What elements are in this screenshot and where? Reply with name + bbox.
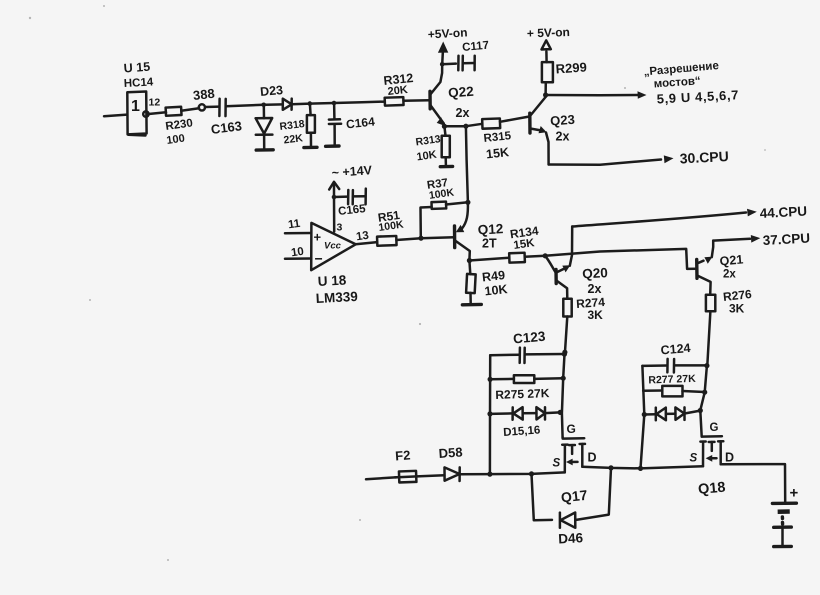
wire enable arrow	[546, 91, 647, 99]
label Q23	[550, 112, 576, 129]
capacitor C123	[490, 348, 564, 363]
capacitor C164	[329, 103, 341, 145]
label C123	[512, 329, 546, 347]
svg-text:C124: C124	[660, 341, 691, 358]
wire node to C163	[205, 105, 219, 108]
ground below clamp diode	[256, 148, 273, 152]
label R315	[483, 130, 512, 145]
svg-text:Q17: Q17	[560, 487, 588, 506]
node R299 bottom	[543, 92, 548, 97]
wire 37.CPU line	[713, 235, 760, 243]
resistor R275	[490, 375, 563, 383]
label ~ +14V	[331, 163, 373, 180]
svg-text:G: G	[567, 422, 576, 436]
label 20K	[387, 84, 408, 98]
resistor R313	[442, 126, 450, 165]
label Q22	[448, 84, 475, 101]
label R230	[165, 117, 194, 133]
capacitor C117	[442, 56, 475, 71]
node R315	[463, 124, 468, 129]
label 100K (R51)	[378, 219, 405, 234]
wire Q23 emitter to 30.CPU	[549, 155, 674, 164]
label R312	[383, 71, 414, 88]
svg-text:D23: D23	[260, 83, 284, 99]
node 388	[199, 104, 205, 110]
diode D23	[266, 99, 292, 110]
label 100K (R37)	[428, 186, 455, 201]
label R134	[509, 223, 540, 241]
battery	[772, 503, 796, 546]
node R51 out	[418, 236, 423, 241]
svg-text:D58: D58	[438, 444, 463, 461]
label D15,16	[503, 424, 541, 439]
svg-text:Q21: Q21	[719, 252, 744, 268]
node D16 right	[558, 410, 563, 415]
label Q12	[477, 221, 503, 237]
label D46	[558, 530, 584, 546]
svg-text:C123: C123	[512, 329, 546, 347]
node R275 left	[488, 377, 493, 382]
label D23	[260, 83, 284, 99]
wire C163 to node D23	[226, 105, 264, 107]
wire D46 branch right	[575, 468, 611, 520]
svg-text:F2: F2	[395, 447, 411, 463]
label 3K (R274)	[588, 308, 604, 322]
wire U15 to R230	[149, 112, 166, 114]
label Q21	[719, 252, 744, 268]
label mostov	[653, 75, 701, 90]
label S (Q17)	[553, 458, 561, 470]
wire R51 to node	[396, 238, 421, 240]
svg-text:22K: 22K	[283, 132, 304, 146]
mosfet Q18 body arrow	[706, 455, 717, 462]
node Q22 emitter	[442, 124, 447, 129]
svg-text:30.CPU: 30.CPU	[679, 148, 729, 167]
label 10K (R313)	[416, 149, 438, 164]
wire bottom-left input	[366, 477, 399, 479]
svg-text:1: 1	[131, 98, 140, 115]
svg-text:10: 10	[290, 246, 304, 260]
mosfet Q17 channel	[562, 444, 585, 473]
svg-text:D: D	[588, 451, 597, 465]
label 10K (R49)	[484, 282, 508, 298]
resistor R315	[466, 117, 530, 129]
svg-text:S: S	[690, 453, 698, 465]
mosfet Q18 gate	[702, 435, 722, 438]
label R276	[722, 287, 752, 304]
wire network right vertical (Q18)	[700, 366, 707, 437]
label 3K (R276)	[729, 302, 745, 316]
label +5V-on (Q22)	[427, 25, 467, 41]
label S (Q18)	[690, 453, 698, 465]
svg-text:D: D	[725, 451, 734, 465]
label 2T	[482, 237, 497, 251]
mosfet Q17 gate	[563, 437, 585, 438]
label 15K (R134)	[513, 237, 536, 252]
transistor Q12	[455, 226, 470, 261]
wire D58 to Q17 source	[460, 472, 565, 474]
label HC14	[124, 76, 155, 90]
label R313	[415, 133, 442, 148]
svg-text:C117: C117	[462, 40, 490, 54]
resistor R51	[377, 236, 397, 246]
node C124 right	[704, 363, 709, 368]
wire 44.CPU line	[572, 209, 757, 227]
wire Q22 emitter to R315 node	[444, 125, 466, 128]
node Q22 collector	[440, 62, 445, 67]
resistor R274	[563, 299, 571, 352]
ground below R49	[462, 303, 481, 307]
wire node up to R37	[421, 207, 432, 238]
svg-text:Q20: Q20	[582, 265, 608, 281]
label C124	[660, 341, 691, 358]
label G (Q18)	[710, 422, 719, 434]
svg-text:3: 3	[337, 222, 343, 234]
svg-text:S: S	[553, 458, 561, 470]
ground below R318	[304, 146, 317, 150]
label D (Q18)	[725, 451, 734, 465]
label C164	[345, 114, 375, 131]
diode D15	[490, 407, 523, 420]
label 44.CPU	[759, 204, 807, 221]
plus input mark	[314, 230, 322, 245]
label D58	[438, 444, 463, 461]
mosfet Q17 body arrow	[566, 459, 578, 466]
svg-text:Q12: Q12	[477, 221, 503, 237]
svg-text:2T: 2T	[482, 237, 497, 251]
pin 11 wire	[285, 232, 311, 235]
wire Q17 drain to Q18 source	[582, 466, 703, 468]
ground below R313	[440, 165, 452, 169]
label 2X (Q21)	[723, 269, 736, 281]
svg-text:12: 12	[149, 97, 161, 109]
resistor R230	[166, 107, 182, 116]
label 22K	[283, 132, 304, 146]
wire R37 to vertical	[446, 202, 468, 204]
label C163	[210, 118, 243, 137]
svg-text:U 15: U 15	[123, 60, 150, 76]
wire network left vertical (Q17)	[489, 355, 492, 474]
node R134 out	[543, 253, 548, 258]
svg-text:2x: 2x	[723, 269, 736, 281]
svg-text:LM339: LM339	[315, 289, 358, 306]
diode D16	[523, 407, 560, 419]
power +5V-on (Q22)	[438, 42, 448, 65]
svg-text:37.CPU: 37.CPU	[762, 231, 810, 248]
label R318	[279, 118, 306, 133]
svg-text:R299: R299	[555, 59, 587, 76]
svg-text:10K: 10K	[484, 282, 508, 298]
node R277 right	[702, 390, 707, 395]
wire D46 branch left	[532, 474, 553, 520]
pin 3	[337, 222, 343, 234]
wire vertical Q22emitter to Q12 collector	[456, 126, 468, 232]
node D15 left	[487, 411, 492, 416]
label R274	[576, 295, 606, 311]
label C165	[338, 203, 367, 218]
wire node to Q12 base	[421, 236, 454, 239]
pin 13	[355, 230, 369, 244]
node network left bottom	[487, 472, 492, 477]
node R275 right	[561, 376, 566, 381]
pin 3 wire to +14V	[329, 182, 339, 232]
wire R318 node to C164 node	[310, 102, 334, 105]
svg-text:+5V-on: +5V-on	[427, 25, 467, 41]
svg-text:G: G	[710, 422, 719, 434]
resistor R277	[643, 386, 705, 397]
mosfet Q18 channel	[700, 441, 723, 466]
Vcc mark	[324, 241, 342, 252]
diode D46	[560, 513, 575, 528]
resistor R37	[431, 202, 446, 209]
power +5V-on (R299)	[542, 40, 551, 49]
label + (battery)	[790, 485, 799, 502]
resistor R318	[307, 104, 315, 146]
node R37 right	[465, 200, 470, 205]
node R274 to network	[562, 350, 567, 355]
svg-text:HC14: HC14	[124, 76, 155, 90]
node diode right (Q18)	[698, 408, 703, 413]
transistor Q23	[530, 97, 549, 165]
label U15	[123, 60, 150, 76]
svg-text:3K: 3K	[729, 302, 745, 316]
wire R134 to node	[525, 255, 546, 258]
capacitor C165	[334, 189, 366, 205]
resistor R134	[509, 253, 525, 263]
svg-text:2x: 2x	[456, 106, 470, 120]
node R318	[308, 101, 313, 106]
wire network right vertical (Q17)	[562, 353, 565, 438]
label 2x (Q23)	[556, 130, 570, 144]
transistor Q22	[430, 64, 444, 125]
node Q12 emitter	[467, 258, 472, 263]
diode pair left (Q18)	[644, 408, 666, 421]
svg-text:~ +14V: ~ +14V	[331, 163, 373, 180]
svg-text:44.CPU: 44.CPU	[759, 204, 807, 221]
pin 10 wire	[285, 257, 311, 260]
label 5,9 U 4,5,6,7	[656, 87, 739, 106]
label 2x (Q20)	[588, 282, 602, 296]
svg-text:+ 5V-on: + 5V-on	[527, 25, 570, 40]
diode D58	[445, 467, 460, 481]
label R299	[555, 59, 587, 76]
svg-text:388: 388	[192, 86, 215, 103]
wire node to Q20 base	[545, 256, 556, 273]
pin 13 output wire	[356, 242, 378, 244]
wire R230 to node 388	[181, 108, 199, 111]
wire node to Q21 base	[545, 249, 696, 269]
svg-text:+: +	[790, 485, 799, 502]
capacitor C163	[219, 99, 225, 116]
svg-text:11: 11	[287, 218, 301, 232]
svg-text:R275 27K: R275 27K	[495, 386, 550, 402]
label +5V-on (R299)	[527, 25, 570, 40]
transistor Q20	[556, 227, 572, 299]
inverter U15	[127, 92, 148, 136]
wire Q12 emitter to R134	[469, 258, 509, 261]
node C164	[332, 101, 337, 106]
wire input stub	[104, 115, 127, 117]
pin 1	[131, 98, 140, 115]
svg-text:100: 100	[166, 133, 186, 147]
wire C164 node to R312	[334, 102, 385, 103]
wire D23 to R318 node	[292, 102, 310, 105]
label C117	[462, 40, 490, 54]
svg-text:U 18: U 18	[317, 272, 347, 288]
svg-text:R277 27K: R277 27K	[648, 373, 696, 387]
transistor Q21	[697, 241, 714, 295]
node D17 left	[642, 412, 647, 417]
resistor R276	[706, 295, 715, 366]
ground below C164	[326, 144, 339, 148]
pin 10	[290, 246, 304, 260]
node pin3	[332, 195, 337, 200]
svg-text:+: +	[314, 230, 322, 245]
resistor R299	[542, 52, 553, 96]
svg-text:15K: 15K	[485, 145, 509, 161]
label R277 27K	[648, 373, 696, 387]
clamp diode below D23 node	[256, 105, 273, 148]
svg-text:3K: 3K	[588, 308, 604, 322]
label R51	[377, 208, 401, 225]
label R49	[481, 268, 505, 284]
node C123 right	[562, 352, 567, 357]
capacitor C124	[642, 359, 707, 373]
wire R312 to Q22 base	[404, 99, 430, 102]
fuse F2	[395, 471, 420, 483]
diode pair right (Q18)	[666, 407, 700, 420]
label Razreshenie	[643, 60, 719, 79]
pin 11	[287, 218, 301, 232]
label D (Q17)	[588, 451, 597, 465]
svg-text:Q23: Q23	[550, 112, 576, 129]
label Q18	[697, 480, 726, 498]
svg-text:Vcc: Vcc	[324, 241, 342, 252]
label 15K (R315)	[485, 145, 509, 161]
node Q18 network bottom	[638, 466, 643, 471]
label 100	[166, 133, 186, 147]
op-amp U18	[311, 223, 356, 270]
label 2x	[456, 106, 470, 120]
svg-text:13: 13	[355, 230, 369, 244]
node D46 right top	[608, 465, 613, 470]
resistor R312	[385, 97, 404, 106]
wire network left vertical (Q18)	[641, 366, 645, 469]
svg-text:−: −	[315, 251, 323, 267]
svg-text:Q22: Q22	[448, 84, 475, 101]
label LM339	[315, 289, 358, 306]
label Q17	[560, 487, 588, 506]
label Q20	[582, 265, 608, 281]
svg-text:D46: D46	[558, 530, 584, 546]
svg-text:2x: 2x	[556, 130, 570, 144]
label 30.CPU	[679, 148, 729, 167]
label R37	[426, 177, 449, 192]
svg-text:20K: 20K	[387, 84, 408, 98]
wire Q18 drain to battery	[721, 464, 786, 503]
label R275 27K	[495, 386, 550, 402]
label F2	[395, 447, 411, 463]
label G (Q17)	[567, 422, 576, 436]
resistor R49	[466, 261, 476, 304]
svg-text:2x: 2x	[588, 282, 602, 296]
node D46 left	[529, 471, 534, 476]
label 388	[192, 86, 215, 103]
minus input mark	[315, 251, 323, 267]
label 37.CPU	[762, 231, 810, 248]
pin 12	[149, 97, 161, 109]
label U18	[317, 272, 347, 288]
svg-text:Q18: Q18	[697, 480, 726, 498]
wire F2 to D58	[420, 475, 444, 476]
node at D23	[261, 103, 266, 108]
